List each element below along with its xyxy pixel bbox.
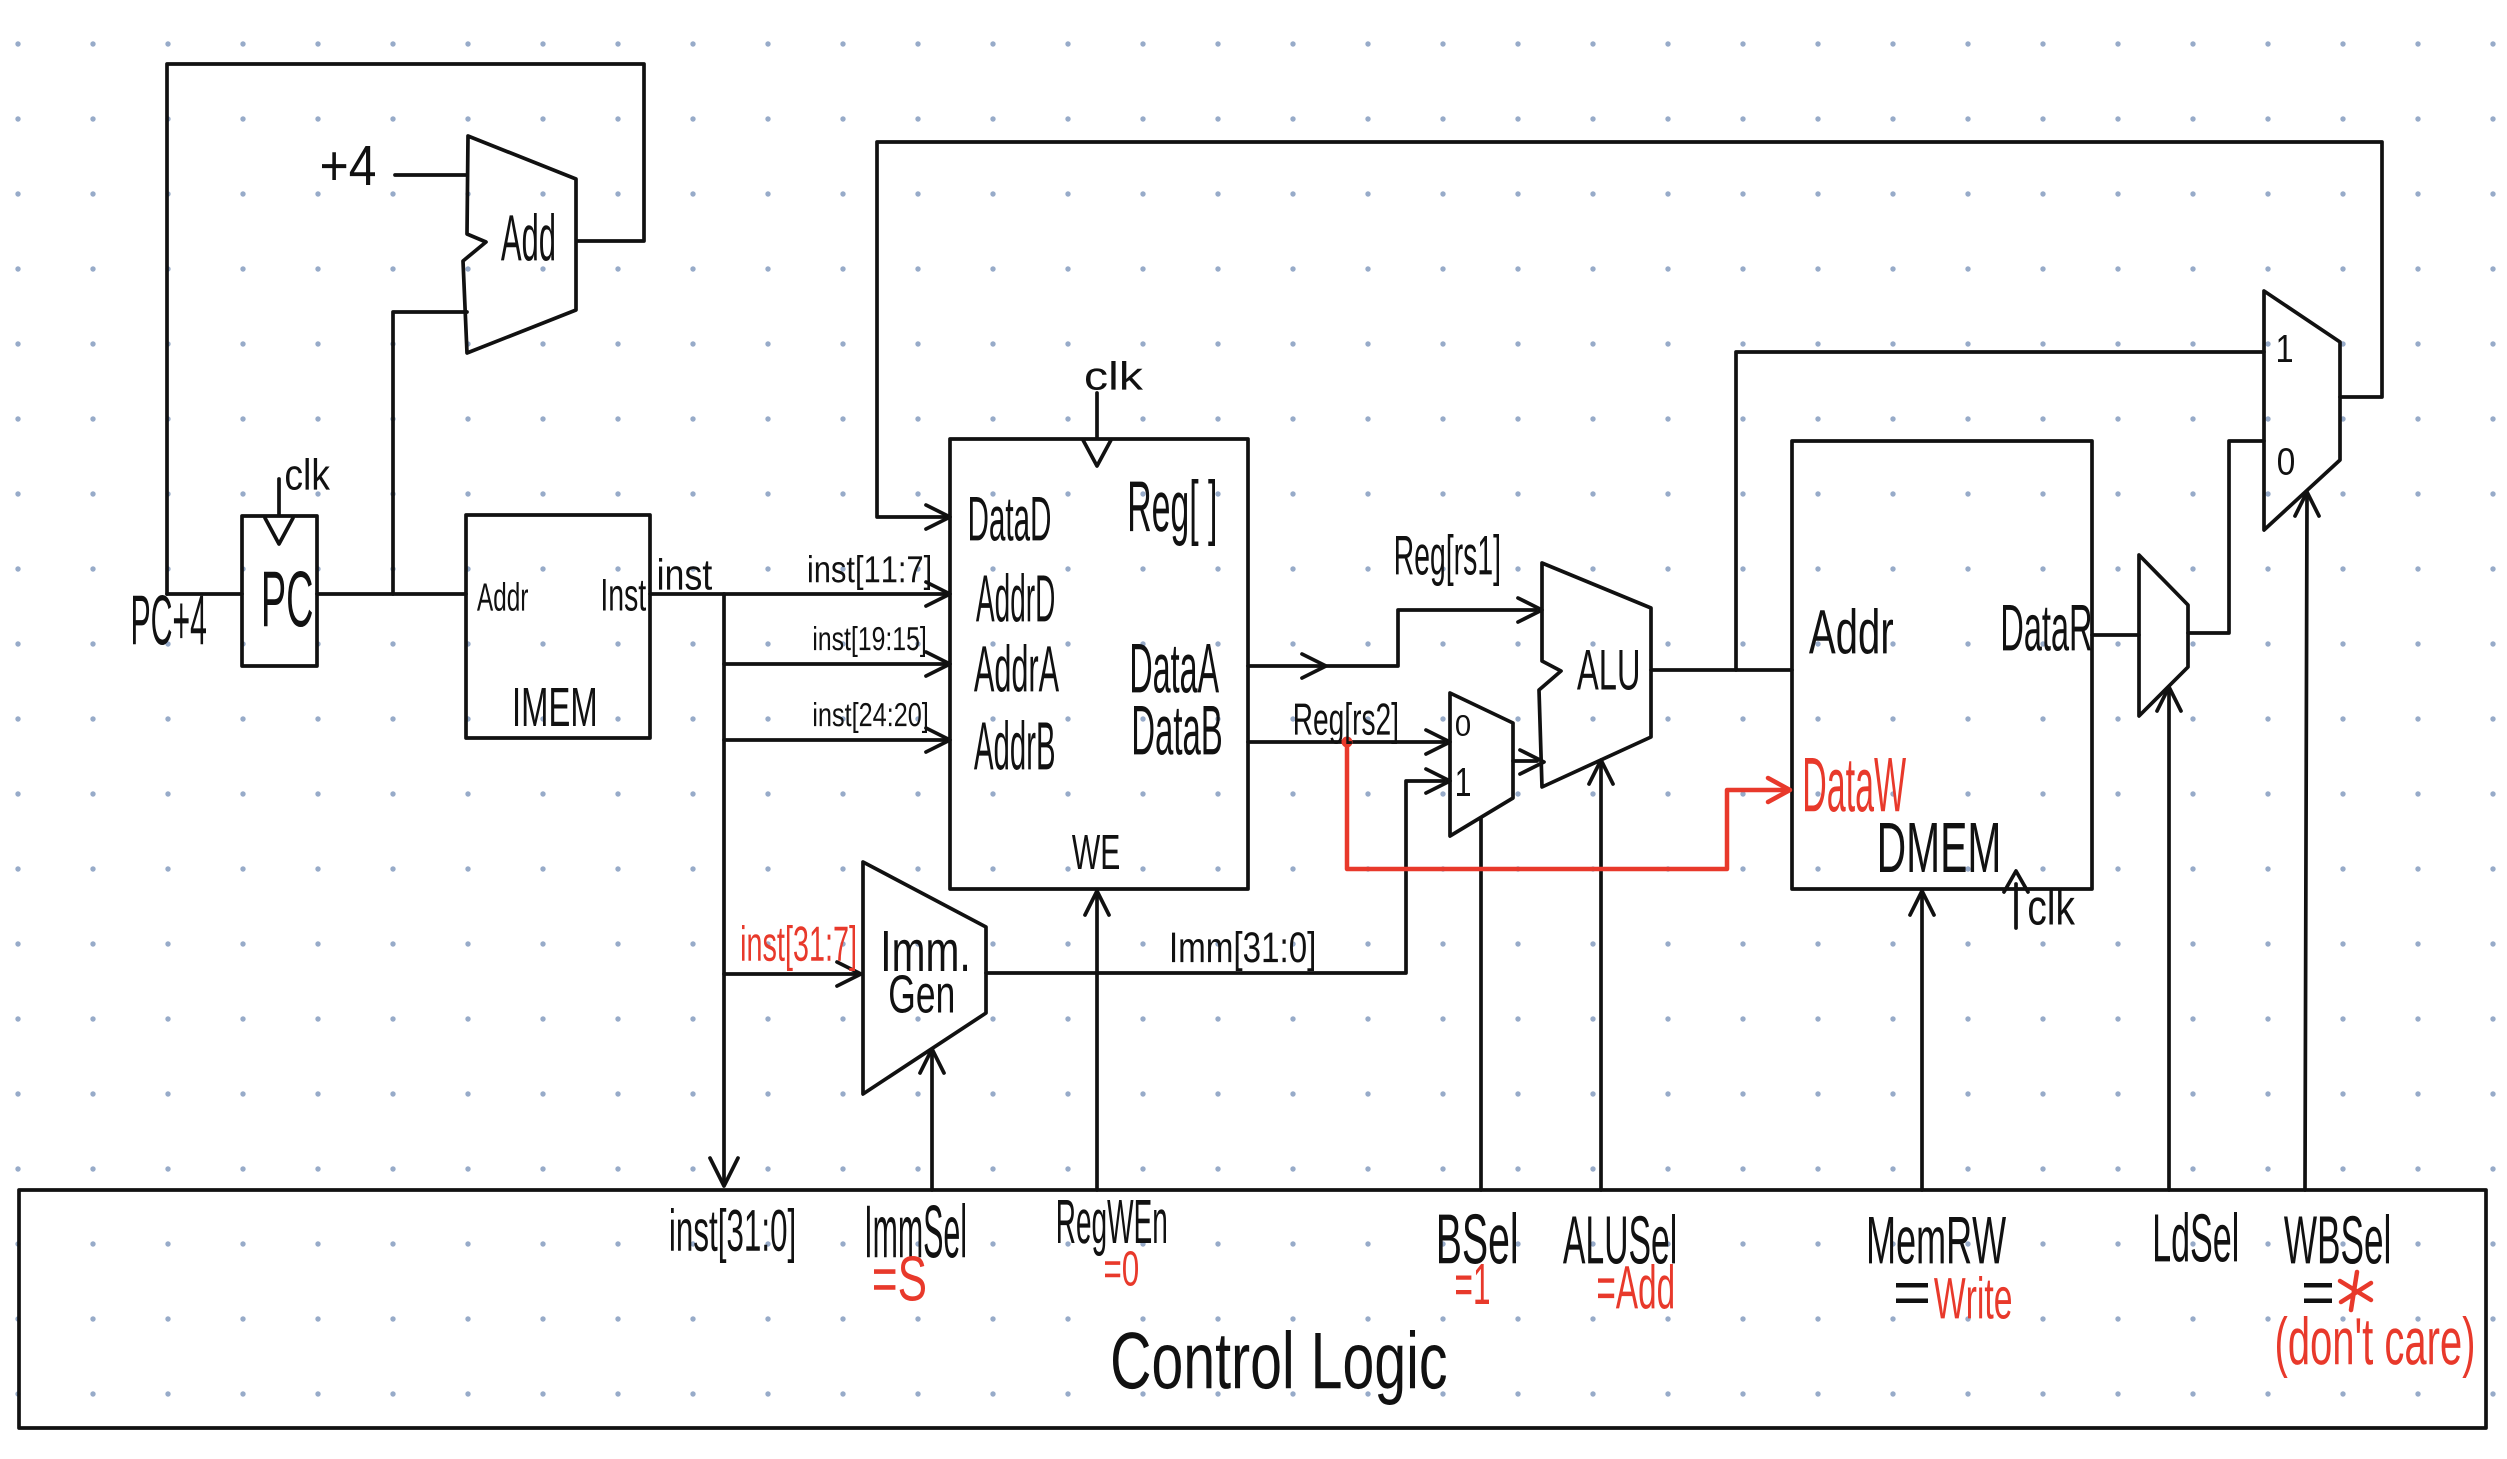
wire PC+4 feedback loop (Add output around to PC input): [167, 64, 644, 594]
pin WE: [1072, 835, 1119, 869]
alu ALU: [1539, 563, 1651, 787]
block IMEM: [466, 515, 650, 738]
label MemRW: [1869, 1217, 2006, 1264]
arrowhead MemRW up: [1910, 891, 1934, 915]
wire WB mux output back to RegFile DataD: [877, 142, 2382, 517]
mux LdSel: [2139, 555, 2188, 716]
label =0 red: [1105, 1251, 1138, 1286]
wire WBSel control: [2305, 497, 2307, 1190]
label ALUSel: [1563, 1214, 1675, 1264]
pin AddrA: [974, 644, 1059, 692]
pin DataW red: [1805, 758, 1906, 812]
arrowhead into DataD: [926, 505, 950, 529]
adder Add: [463, 136, 576, 353]
pin 0 (WB mux): [2278, 448, 2294, 475]
arrowhead into BSel mux 0: [1426, 730, 1450, 754]
wire DataB (Reg[rs2]) to BSel mux input 0: [1248, 740, 1444, 744]
arrowhead BSel mux output into ALU: [1520, 750, 1544, 774]
pin Addr (DMEM): [1809, 608, 1893, 654]
wire BSel control: [1479, 818, 1483, 1190]
label clk (DMEM): [2029, 888, 2075, 925]
label LdSel: [2155, 1212, 2237, 1262]
arrowhead into AddrA: [926, 652, 950, 676]
wire LdSel control: [2167, 693, 2171, 1190]
wire DataA (Reg[rs1]) to ALU top input: [1248, 610, 1536, 666]
block RegFile Reg[]: [950, 439, 1248, 889]
wire clk tick DMEM: [2014, 884, 2018, 928]
pin Addr (IMEM): [477, 582, 528, 611]
pin Inst (IMEM): [603, 579, 646, 611]
label Reg[rs2]: [1295, 702, 1397, 744]
wire inst[24:20] into AddrB: [724, 738, 946, 742]
arrowhead inst[31:0] down into Control Logic: [710, 1158, 738, 1186]
wire inst from IMEM to RegFile AddrD (inst[11:7]): [650, 592, 946, 596]
wire inst vertical branch: [722, 594, 726, 1183]
wire RegWEn control: [1095, 896, 1099, 1190]
arrowhead into BSel mux 1: [1426, 769, 1450, 793]
label Imm[31:0]: [1172, 931, 1314, 971]
label PC+4: [133, 595, 206, 645]
arrowhead LdSel up: [2157, 687, 2181, 711]
mux WBSel: [2264, 291, 2340, 530]
mux BSel: [1450, 693, 1513, 836]
label = (MemRW value): [1896, 1283, 1928, 1303]
arrowhead RegWEn up: [1085, 891, 1109, 915]
label BSel: [1439, 1212, 1516, 1264]
wire LdSel mux output to WB mux input 0: [2188, 441, 2264, 633]
block Imm Gen: [863, 862, 986, 1094]
label =1 red: [1456, 1264, 1489, 1304]
pin DataA: [1132, 644, 1219, 693]
wire clk into RegFile: [1095, 393, 1099, 437]
label =Add red: [1598, 1264, 1673, 1309]
wire ALU output to DMEM Addr: [1651, 668, 1792, 672]
label Reg[rs1]: [1396, 534, 1499, 586]
label +4: [322, 146, 375, 185]
label inst[19:15]: [814, 626, 925, 657]
arrowhead WBSel up: [2295, 492, 2319, 516]
arrowhead into AddrB: [926, 728, 950, 752]
label ALU: [1577, 650, 1638, 690]
wire +4 constant into Add: [395, 173, 467, 177]
wire Imm[31:0] from Imm Gen to BSel mux input 1: [986, 781, 1444, 973]
label Control Logic: [1113, 1330, 1446, 1405]
pin 1 (BSel mux): [1457, 768, 1470, 796]
wire inst[19:15] into AddrA: [724, 662, 946, 666]
wire inst[31:7] into Imm Gen: [724, 972, 857, 976]
label Reg[ ]: [1130, 479, 1215, 546]
arrowhead ALUSel up: [1589, 760, 1613, 784]
pin AddrB: [974, 720, 1054, 770]
label inst[31:0]: [671, 1208, 794, 1263]
wire DataR from DMEM to LdSel mux: [2092, 633, 2139, 637]
wire PC to IMEM Addr: [317, 592, 466, 596]
label inst[31:7] red: [742, 925, 855, 971]
pin DataB: [1134, 706, 1221, 755]
wire ALUSel control: [1599, 766, 1603, 1190]
register PC: [242, 516, 317, 666]
arrowhead into Imm Gen: [837, 962, 861, 986]
label =S red: [874, 1256, 925, 1301]
arrowhead clk V into PC: [265, 518, 293, 544]
arrowhead clk caret DMEM: [2004, 871, 2028, 892]
label red star (WBSel value *): [2340, 1272, 2371, 1310]
node red junction on Reg[rs2] wire: [1342, 737, 1353, 748]
wire BSel mux output to ALU bottom input: [1513, 759, 1537, 763]
arrowhead mid DataA wire: [1302, 654, 1326, 678]
label inst: [659, 558, 712, 590]
arrowhead red into DataW: [1768, 778, 1790, 802]
label Gen: [890, 975, 953, 1013]
block Control Logic: [19, 1190, 2486, 1428]
pin 1 (WB mux): [2278, 335, 2292, 362]
wire PC value up into Add lower input: [393, 312, 467, 594]
label clk (PC): [286, 458, 330, 490]
wire MemRW control: [1920, 896, 1924, 1190]
label inst[11:7]: [809, 555, 930, 590]
label RegWEn: [1058, 1200, 1166, 1256]
label Add: [501, 213, 554, 261]
block DMEM: [1792, 441, 2092, 889]
label (don't care) red: [2277, 1316, 2473, 1378]
pin DataR: [2003, 605, 2091, 651]
label IMEM: [515, 688, 595, 726]
arrowhead into AddrD: [926, 582, 950, 606]
wire PC+4 into PC: [167, 592, 242, 596]
wire ALU output branch up to WB mux input 1: [1736, 352, 2264, 670]
label DMEM: [1880, 823, 1998, 872]
wire ImmSel control: [930, 1055, 934, 1190]
label WBSel: [2284, 1214, 2389, 1264]
wire red DataW feedback from Reg[rs2] junction to DMEM DataW: [1347, 742, 1786, 869]
label = (WBSel value): [2304, 1283, 2332, 1303]
label inst[24:20]: [814, 702, 927, 733]
label PC: [264, 571, 312, 627]
pin 0 (BSel mux): [1456, 715, 1470, 736]
wire clk into PC: [277, 479, 281, 514]
arrowhead into ALU top input: [1518, 598, 1542, 622]
pin AddrD: [976, 573, 1054, 622]
label CLK (RegFile): [1086, 361, 1143, 390]
pin DataD: [970, 497, 1050, 541]
arrowhead ImmSel up: [920, 1049, 944, 1073]
label Imm.: [884, 931, 967, 971]
label Write red: [1934, 1276, 2011, 1319]
label ImmSel: [867, 1203, 965, 1258]
arrowhead clk V into RegFile: [1083, 440, 1111, 466]
